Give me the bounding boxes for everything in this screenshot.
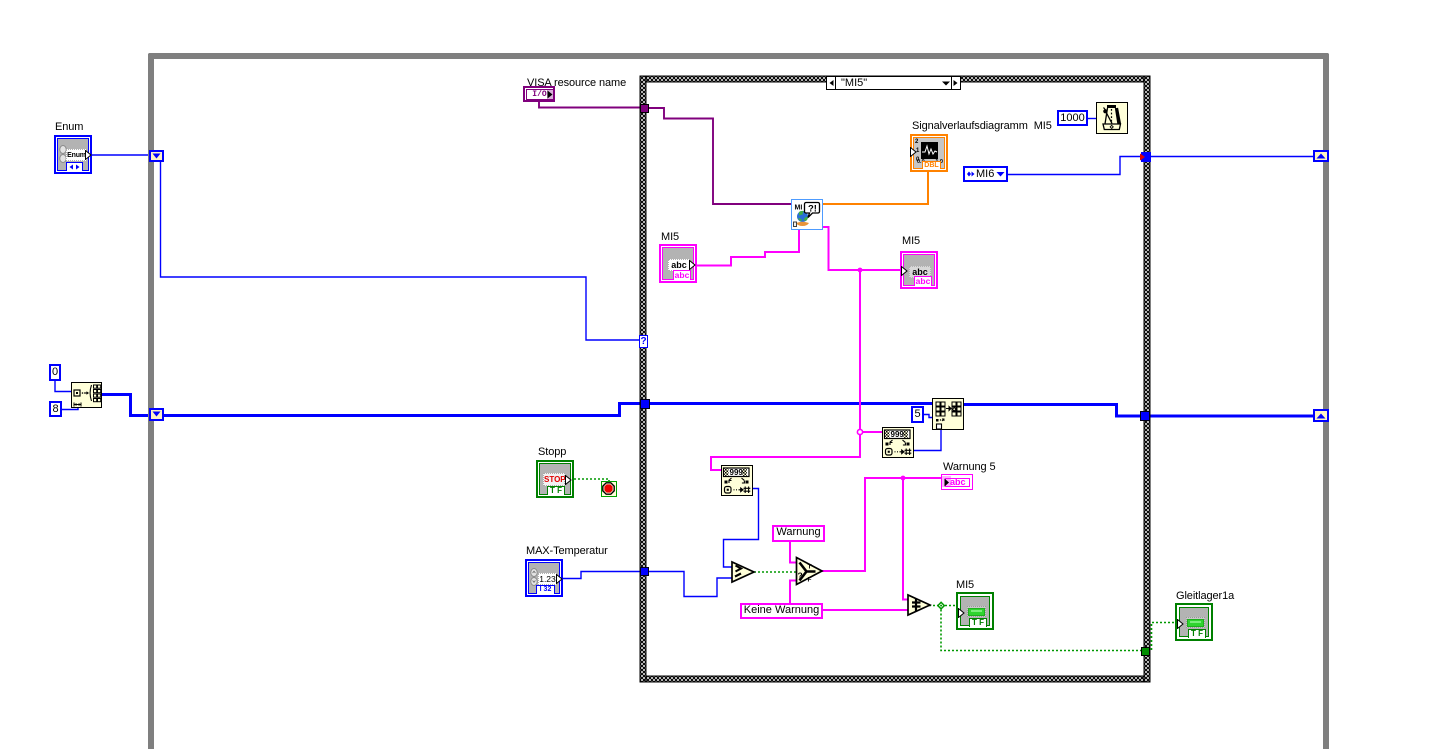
svg-text:T: T [808, 564, 812, 571]
match pattern node 1 [882, 427, 914, 458]
Gleitlager1a boolean indicator [1175, 603, 1213, 641]
MI5 string control [659, 244, 697, 283]
tunnel: VISA (purple) [640, 104, 649, 113]
constant 5 [911, 406, 924, 423]
label MI5 left [661, 232, 679, 243]
Stopp boolean control [536, 460, 574, 498]
match pattern node 2 [721, 465, 753, 496]
wire: open node to waveform chart (orange dbl) [823, 172, 928, 204]
case border left [640, 76, 646, 682]
wire: junction down to match2 input [711, 432, 860, 470]
label VISA resource name [527, 78, 626, 89]
junction dot string A [858, 268, 863, 273]
wire: case tunnel to right shift register (array) [1146, 415, 1313, 418]
case border bottom [640, 676, 1150, 682]
wire: VISA control to case tunnel (visa wire) [539, 101, 642, 108]
junction dot string C [901, 476, 906, 481]
case selector label [826, 76, 961, 90]
while loop border [148, 53, 1329, 749]
wire: replace array subset to right case tunnel [964, 405, 1144, 417]
select node [794, 555, 824, 587]
wire: 5 constant to replace array subset [924, 415, 933, 418]
wire: Enum to left shift register [92, 154, 149, 156]
svg-text:999: 999 [891, 430, 905, 439]
label Stopp [538, 447, 566, 458]
junction diamond boolean [938, 602, 945, 609]
stop if true node [601, 481, 617, 497]
tunnel: MI6 out (blue, linked red mark) [1141, 152, 1151, 162]
wire: MI5 left control to open node (string) [697, 230, 799, 266]
wire: Stopp to stop node (boolean dotted) [574, 479, 609, 482]
wire: case tunnel to replace array subset [646, 402, 932, 405]
initialize array node [71, 382, 102, 408]
VISA open instrument node [791, 199, 823, 230]
not equal node [906, 593, 932, 617]
tunnel: array out (blue) [1140, 411, 1150, 421]
label Warnung 5 [943, 462, 996, 473]
shift register left (array) [149, 408, 164, 421]
case selector ? terminal [639, 335, 648, 348]
Warnung string constant [772, 525, 825, 542]
wire: junction down to not-equal node [903, 478, 908, 600]
junction dot string B [857, 429, 862, 434]
wire: MAX-Temp tunnel to greater-equal node [646, 572, 732, 597]
constant 8 [49, 401, 62, 417]
VISA resource name control [523, 86, 555, 102]
Keine Warnung string constant [740, 603, 823, 619]
Warnung 5 string indicator [941, 474, 973, 490]
wire: string branch down to match junction [859, 270, 861, 432]
MI6 combo constant [963, 166, 1008, 182]
label MAX-Temperatur [526, 546, 608, 557]
tunnel: boolean out (green) [1141, 647, 1150, 656]
wire: init array to left shift register (thick array wire) [102, 395, 150, 416]
wire: enum inside loop to case selector [161, 161, 642, 340]
wire: open node to MI5 right indicator (string) [823, 227, 902, 270]
MI5 boolean indicator [956, 592, 994, 630]
constant 1000 [1057, 110, 1088, 126]
label Gleitlager1a [1176, 591, 1234, 602]
shift register left (enum) [149, 150, 164, 162]
MAX-Temperatur numeric control [525, 559, 563, 597]
wire: 1000 to wait ms [1088, 118, 1096, 120]
case border top [640, 76, 1150, 82]
wire: boolean branch down to case tunnel [941, 606, 1143, 651]
wire: left shift register to case tunnel (array) [163, 404, 645, 416]
wire: MI6 combo to case tunnel [1008, 157, 1143, 175]
wire: MAX-Temperatur to case tunnel [563, 572, 642, 579]
case border right [1144, 76, 1150, 682]
label MI5 right [902, 236, 920, 247]
tunnel: MAX-Temperatur (blue) [640, 567, 649, 576]
wire: match2 output to greater-equal node [724, 489, 759, 568]
greater or equal node [730, 560, 756, 584]
svg-text:MI: MI [795, 205, 803, 212]
MI5 string indicator [900, 251, 938, 289]
tunnel: array in (blue) [640, 399, 650, 409]
label Enum [55, 122, 83, 133]
wire: Warnung constant to select [790, 542, 796, 563]
waveform chart terminal [910, 134, 948, 172]
svg-text:999: 999 [730, 468, 744, 477]
wire: 0 constant to init array [55, 380, 71, 392]
wire: 8 constant to init array [62, 405, 78, 410]
svg-text:?!: ?! [808, 204, 817, 215]
enum control [54, 135, 92, 174]
wire: junction to match1 input [860, 431, 882, 433]
shift register right (enum) [1313, 150, 1329, 162]
wire: not-equal to MI5 bool indicator [929, 605, 959, 607]
replace array subset node [932, 398, 964, 430]
shift register right (array) [1313, 409, 1329, 422]
wire: Keine Warnung constant to select [790, 581, 796, 604]
constant 0 [49, 364, 61, 381]
wire: greater-equal to select (boolean dotted) [754, 571, 796, 573]
wire: MI6 tunnel to right shift register [1148, 156, 1313, 158]
wait ms node [1096, 102, 1128, 134]
svg-text:F: F [808, 577, 812, 584]
label Signalverlaufsdiagramm MI5 [912, 121, 1052, 132]
wire: match1 output to replace array subset [914, 430, 941, 451]
label MI5 bool [956, 580, 974, 591]
wire: VISA tunnel to open node [647, 108, 791, 204]
wire: Keine Warnung to not-equal node [823, 609, 908, 611]
wire: select output to Warnung 5 indicator [822, 478, 941, 571]
wire: bool tunnel to Gleitlager1a [1148, 623, 1177, 651]
